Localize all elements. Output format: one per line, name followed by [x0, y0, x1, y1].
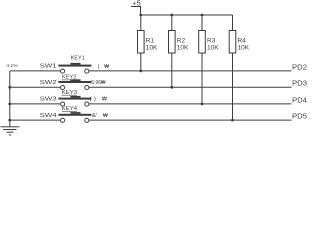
switch SW3 actuator: [70, 96, 80, 98]
junction dot bus/row3: [8, 103, 11, 106]
switch SW3 contacts: [61, 102, 65, 106]
junction dot bus/R3: [201, 14, 204, 17]
wire row1 right (PD2): [89, 70, 292, 72]
svg-text:|: |: [98, 64, 99, 70]
svg-text:SW2: SW2: [40, 80, 57, 86]
wire row3 right (PD4): [89, 103, 292, 105]
svg-text:10K: 10K: [146, 44, 158, 51]
switch SW4 contacts: [61, 118, 65, 122]
wire R3 top lead: [201, 15, 203, 31]
svg-text:10K: 10K: [177, 44, 189, 51]
wire R2 top lead: [171, 15, 173, 31]
switch SW3 bar: [58, 98, 91, 100]
svg-text:10K: 10K: [207, 44, 219, 51]
svg-text:KEY3: KEY3: [62, 90, 78, 96]
wire R1 bottom lead: [140, 53, 142, 71]
svg-text:10K: 10K: [238, 44, 250, 51]
svg-text:PD5: PD5: [292, 112, 307, 121]
switch SW2 bar: [58, 81, 91, 83]
switch SW2 actuator: [70, 79, 80, 81]
resistor R3: [199, 31, 206, 54]
svg-text:KEY1: KEY1: [71, 55, 85, 61]
svg-text:+5: +5: [132, 1, 141, 8]
svg-text:₩: ₩: [104, 64, 109, 70]
switch SW4 actuator: [70, 112, 80, 114]
wire R3 bottom lead: [201, 53, 203, 104]
wire row4 left: [10, 119, 61, 121]
switch SW1 contacts: [61, 69, 65, 73]
svg-text:PD2: PD2: [292, 63, 307, 72]
wire +5 to bus: [140, 7, 142, 16]
junction dot bus/row4: [8, 119, 11, 122]
svg-text:SW1: SW1: [40, 64, 57, 70]
ground bar2: [3, 129, 16, 130]
junction dot R2/row2: [170, 86, 173, 89]
resistor R2: [169, 31, 176, 54]
svg-text:&': &': [92, 113, 98, 119]
svg-text:₩: ₩: [103, 113, 108, 119]
junction dot bus/R2: [170, 14, 173, 17]
switch SW1 bar: [58, 65, 91, 67]
junction dot bus/row2: [8, 86, 11, 89]
resistor R4: [229, 31, 236, 54]
power +5 terminal bar: [131, 6, 141, 8]
svg-text:4 1%: 4 1%: [7, 63, 18, 68]
svg-text:KEY2: KEY2: [62, 75, 76, 81]
wire R4 top lead: [232, 15, 234, 31]
svg-text:PD3: PD3: [292, 79, 307, 88]
wire R1 top lead: [140, 15, 142, 31]
wire top bus: [141, 14, 233, 16]
junction dot R1/row1: [139, 70, 142, 73]
svg-text:PD4: PD4: [292, 95, 307, 104]
switch SW1 actuator: [70, 63, 80, 65]
svg-text:SW4: SW4: [40, 113, 58, 119]
wire R2 bottom lead: [171, 53, 173, 87]
wire left bus: [9, 71, 11, 127]
svg-text:KEY4: KEY4: [62, 106, 78, 112]
wire row2 left: [10, 86, 61, 88]
ground bar4: [9, 134, 11, 135]
ground bar1: [1, 126, 20, 127]
switch SW2 contacts: [61, 85, 65, 89]
wire R4 bottom lead: [232, 53, 234, 120]
wire row4 right (PD5): [89, 119, 292, 121]
junction dot R3/row3: [201, 103, 204, 106]
wire row1 left: [10, 70, 61, 72]
svg-text:SW3: SW3: [40, 97, 57, 103]
svg-text:( ): ( ): [90, 97, 97, 103]
svg-text:S 96₩: S 96₩: [91, 80, 106, 86]
switch SW4 bar: [58, 114, 91, 116]
svg-text:₩: ₩: [102, 97, 107, 103]
wire row3 left: [10, 103, 61, 105]
wire row2 right (PD3): [89, 86, 292, 88]
ground bar3: [6, 132, 13, 133]
junction dot +5/bus: [139, 14, 142, 17]
resistor R1: [138, 31, 145, 54]
junction dot R4/row4: [231, 119, 234, 122]
